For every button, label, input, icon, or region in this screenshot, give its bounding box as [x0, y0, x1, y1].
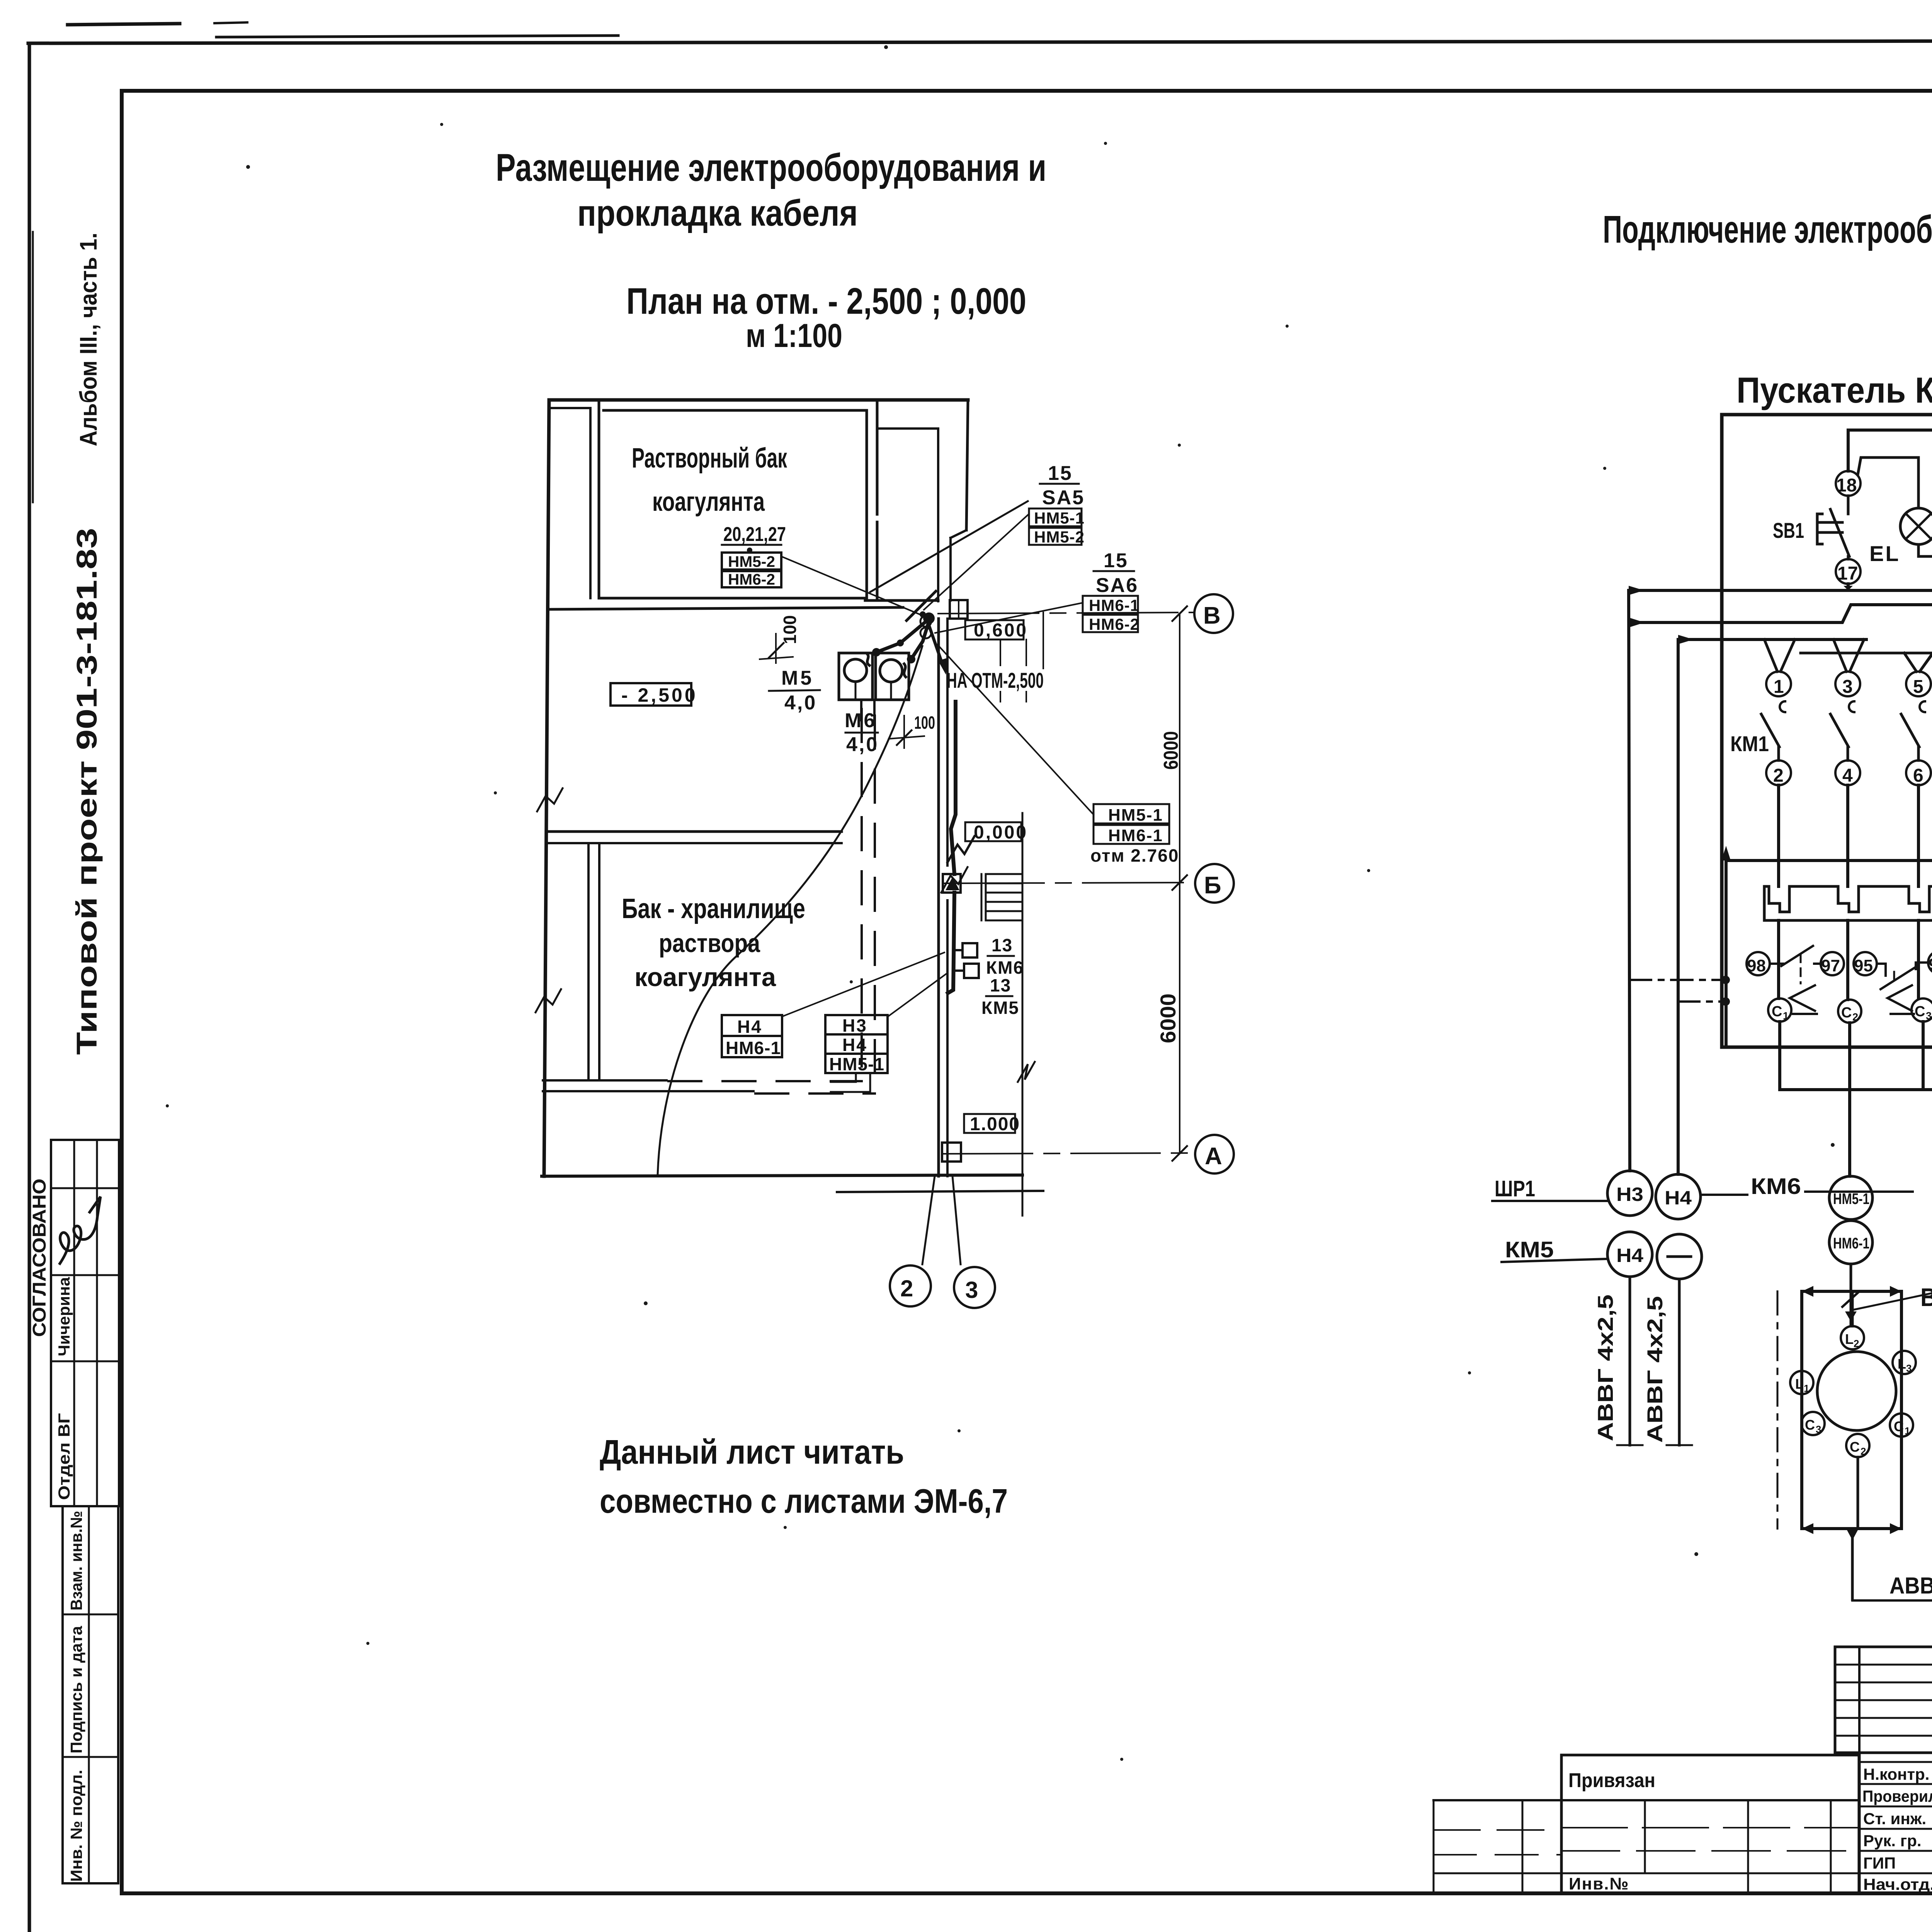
thermal trip hook 2 [1888, 985, 1914, 1014]
svg-text:Н4: Н4 [842, 1035, 867, 1055]
svg-text:98: 98 [1747, 956, 1766, 975]
label ШР1 [1492, 1176, 1607, 1201]
plan: room label Растворный бак [632, 443, 787, 474]
svg-text:0,000: 0,000 [974, 822, 1028, 843]
terminal 18 [1836, 471, 1861, 496]
label Выключатель SA5 (SA6) [1920, 1283, 1932, 1311]
svg-text:коагулянта: коагулянта [652, 486, 765, 517]
svg-text:Подключение электрооборудован: Подключение электрооборудования [1603, 208, 1932, 251]
svg-text:Привязан: Привязан [1568, 1769, 1655, 1792]
svg-text:М5: М5 [781, 667, 814, 689]
svg-text:1: 1 [1774, 677, 1784, 697]
svg-text:АВВГ 4х2,5: АВВГ 4х2,5 [1593, 1294, 1617, 1441]
terminal 17 [1836, 559, 1861, 584]
fuse circle blank [1657, 1234, 1702, 1279]
SA5 terminal C1 [1890, 1413, 1913, 1437]
fuse circle Н4 bottom [1607, 1232, 1652, 1277]
wires: phases down to thermal relay [1779, 785, 1918, 886]
plan: storage room bottom walls [543, 1080, 753, 1091]
plan: dim 100 left [760, 615, 800, 663]
thermal trip hook 1 [1790, 985, 1817, 1014]
svg-text:1: 1 [1783, 1010, 1789, 1022]
plan: left wall break mark [537, 788, 563, 811]
thermal relay heater block [1764, 886, 1932, 920]
svg-text:3: 3 [965, 1277, 978, 1303]
titleblock: names grid [1859, 1753, 1932, 1893]
switch SA5 frame wires [1802, 1286, 1901, 1534]
side text Чичерина [55, 1277, 73, 1356]
SA5 terminal L3 [1893, 1351, 1916, 1374]
svg-text:НМ6-2: НМ6-2 [1089, 615, 1139, 633]
svg-text:6000: 6000 [1156, 993, 1180, 1043]
svg-text:Взам. инв.№: Взам. инв.№ [67, 1511, 85, 1611]
titleblock: role labels [1862, 1765, 1932, 1893]
label АВВГ 4х2,5 vertical left [1593, 1294, 1617, 1441]
plan: 13/КМ6 box symbol [953, 943, 977, 957]
plan: pump junction dots and cable polylines [867, 612, 935, 677]
svg-text:НМ5-2: НМ5-2 [1034, 528, 1085, 546]
svg-text:2: 2 [1773, 765, 1784, 786]
svg-text:Н3: Н3 [842, 1015, 867, 1036]
plan: wall break on inner wall [1018, 1062, 1035, 1082]
svg-text:Нач.отд.: Нач.отд. [1863, 1875, 1932, 1893]
plan: partition wall middle [547, 832, 842, 843]
label КМ5 feeder [1502, 1237, 1607, 1262]
plan: cable riser thick line [948, 702, 956, 993]
wire: top latch line 18 to right [1848, 430, 1932, 815]
terminal C2 [1838, 1000, 1861, 1023]
svg-text:13: 13 [990, 975, 1011, 995]
svg-text:2: 2 [1852, 1011, 1858, 1023]
plan: dim text 6000 lower [1156, 993, 1180, 1043]
plan: wall below tank room [548, 607, 903, 609]
side text Взам. инв.№ [67, 1511, 85, 1611]
svg-text:НМ6-1: НМ6-1 [726, 1038, 781, 1058]
cable tails АВВГ below H circles [1617, 1277, 1692, 1445]
plan: room label коагулянта [652, 486, 765, 517]
title: Размещение электрооборудования и [496, 146, 1046, 189]
svg-text:Проверил: Проверил [1862, 1787, 1932, 1805]
wire: НМ6-1 down with cable mark [1842, 1264, 1859, 1326]
svg-text:95: 95 [1854, 956, 1873, 975]
note: Данный лист читать [600, 1433, 904, 1471]
wires: phases through heater to contacts row [1779, 920, 1918, 1000]
fuse circle Н3 [1607, 1171, 1652, 1216]
svg-text:НМ5-1: НМ5-1 [1034, 509, 1085, 527]
svg-text:Размещение электрооборудовани: Размещение электрооборудования и [496, 146, 1046, 189]
wire: bus2 to 13 [1630, 605, 1932, 672]
title right: Подключение электрооборудования [1603, 208, 1932, 251]
svg-text:НМ5-1: НМ5-1 [829, 1054, 884, 1074]
plan: riser break mark [947, 836, 975, 862]
plan: label M5/4,0 [769, 667, 820, 714]
plan: axis circle 2 [890, 1265, 931, 1306]
scan artifact dashes top-left [68, 22, 247, 25]
plan: stairs [981, 874, 1022, 920]
plan: Б axis line [944, 883, 1193, 883]
plan: label раствора [659, 929, 760, 958]
terminal 2 [1766, 760, 1791, 786]
plan: label M6/4,0 [845, 709, 879, 756]
plan: inner wall right of stairs [1022, 813, 1024, 1216]
plan: callout 20,21,27 with boxes [722, 523, 786, 588]
plan: pump pads M5 M6 [839, 653, 909, 725]
contact KM1 pole 1 [1761, 701, 1785, 760]
svg-text:3: 3 [1906, 1362, 1912, 1374]
svg-text:С: С [1841, 1005, 1852, 1021]
plan: label коагулянта2 [634, 963, 776, 992]
wire: bus1 17-96 [1629, 580, 1932, 590]
terminal 1 [1766, 672, 1791, 697]
plan: SA5 leader line [924, 514, 1029, 610]
plan: dimension line 6000x2 [1172, 606, 1187, 1161]
plan: left wall break mark 2 [536, 989, 561, 1012]
svg-text:4,0: 4,0 [784, 692, 817, 714]
plan: dashed cable tray horizontal [668, 1081, 875, 1094]
svg-text:Н.контр.: Н.контр. [1863, 1765, 1929, 1783]
label АВВГ 4х2,5 bottom [1889, 1573, 1932, 1599]
svg-text:Бак - хранилище: Бак - хранилище [622, 893, 805, 924]
thermal contact 95-96 [1877, 963, 1928, 989]
plan: SA6 leader line [935, 603, 1083, 633]
svg-text:18: 18 [1836, 475, 1857, 496]
label КМ6 [1702, 1174, 1913, 1199]
svg-text:НМ6-2: НМ6-2 [728, 571, 775, 588]
plan: axis circle 3 [954, 1267, 995, 1308]
svg-text:100: 100 [914, 713, 935, 733]
side text Подпись и дата [67, 1626, 85, 1753]
sheet outer border left [29, 43, 33, 1932]
plan: B axis line [938, 612, 1193, 614]
side text СОГЛАСОВАНО [29, 1179, 50, 1337]
plan: tank room walls (Растворный бак) [549, 400, 867, 600]
svg-text:Н3: Н3 [1616, 1184, 1643, 1205]
plan: stub elbows below stacks [831, 1073, 870, 1092]
subtitle: План на отм -2,500 ; 0,000 [626, 281, 1026, 322]
plan: right wall below B axis [939, 619, 947, 1176]
plan: label 13/КМ5 [981, 975, 1019, 1018]
svg-text:96: 96 [1929, 955, 1932, 974]
svg-text:С: С [1915, 1003, 1925, 1020]
svg-text:совместно с листами ЭМ-6,7: совместно с листами ЭМ-6,7 [600, 1482, 1008, 1520]
svg-text:НМ6-1: НМ6-1 [1089, 596, 1139, 614]
label SB1 [1773, 518, 1804, 543]
title: прокладка кабеля [577, 192, 858, 234]
terminal 97 [1821, 952, 1844, 975]
side stamp rotated title: Типовой проект 901-3-181.83 [71, 528, 103, 1055]
plan: elevation box 0,600 [965, 620, 1028, 641]
sheet outer border top [28, 36, 1932, 43]
svg-text:НМ6-1: НМ6-1 [1108, 826, 1163, 845]
svg-text:97: 97 [1821, 956, 1840, 975]
svg-text:раствора: раствора [659, 929, 760, 958]
svg-text:Инв. № подл.: Инв. № подл. [67, 1770, 85, 1882]
terminal 4 [1835, 760, 1860, 786]
plan: elevation box -2,500 [611, 683, 698, 706]
svg-text:Типовой проект 901-3-181.83: Типовой проект 901-3-181.83 [71, 528, 103, 1055]
svg-text:15: 15 [1104, 549, 1128, 572]
svg-text:1: 1 [1804, 1383, 1809, 1394]
plan: stair diagonal [870, 501, 1028, 592]
svg-text:L: L [1795, 1376, 1804, 1392]
svg-text:3: 3 [1816, 1423, 1821, 1435]
contact KM1 pole 3 [1901, 701, 1925, 760]
svg-text:15: 15 [1048, 462, 1073, 485]
junction blobs at wire corners [1629, 430, 1932, 861]
terminal C1 [1768, 998, 1791, 1022]
svg-text:Н4: Н4 [1616, 1245, 1643, 1266]
svg-text:Пускатель КМ5 (КМ6): Пускатель КМ5 (КМ6) [1736, 370, 1932, 410]
plan: label Бак-хранилище [622, 893, 805, 924]
plan: Н3/Н4/НМ5-1 stack [825, 1015, 888, 1074]
svg-text:2: 2 [900, 1276, 913, 1301]
plan: box at А axis [942, 1143, 961, 1162]
plan: building top wall [549, 398, 968, 402]
terminal C3 [1912, 998, 1932, 1022]
plan: А axis line [944, 1153, 1193, 1154]
svg-text:План на отм. - 2,500 ; 0,00: План на отм. - 2,500 ; 0,000 [626, 281, 1026, 322]
dash-dot links to enclosure left [1630, 976, 1730, 1006]
plan: А axis circle [1195, 1135, 1234, 1173]
svg-text:- 2,500: - 2,500 [621, 684, 698, 706]
switch SA5 dash-dot boundary [1777, 1291, 1779, 1529]
svg-text:Отдел ВГ: Отдел ВГ [55, 1413, 73, 1500]
plan: building left wall [544, 400, 549, 1176]
plan: 13/КМ5 box symbol [953, 964, 979, 978]
plan: wall break mark right [941, 867, 968, 893]
plan: leaders to Н4/Н3 stacks [783, 952, 947, 1016]
plan: dashed cable tray vertical [862, 709, 875, 1094]
side table block2 grid [63, 1506, 118, 1883]
svg-text:3: 3 [1842, 677, 1853, 697]
label KM1 left [1730, 731, 1769, 756]
plan: dim text 6000 upper [1160, 731, 1182, 770]
plan: elevation box 1.000 [964, 1114, 1020, 1134]
plan: Н4/НМ6-1 stack [722, 1015, 782, 1058]
svg-text:Растворный бак: Растворный бак [632, 443, 787, 474]
wire: bottom cable run [1852, 1579, 1932, 1600]
terminal 3 [1835, 672, 1860, 697]
plan: leader to HM5-1 stack lower [937, 645, 1094, 815]
plan: long S-curve cable [658, 646, 922, 1175]
label АВВГ 4х2,5 vertical right [1643, 1296, 1667, 1443]
terminal 98 [1747, 952, 1770, 975]
plan: 20,21,27 leader [781, 556, 922, 615]
side stamp rotated title: Альбом III, часть 1 [75, 233, 102, 446]
svg-text:L: L [1898, 1356, 1906, 1372]
wire: B return down and left [1726, 785, 1932, 1047]
svg-text:Н4: Н4 [737, 1017, 762, 1037]
wires: C row join bar [1780, 1022, 1932, 1176]
svg-text:SB1: SB1 [1773, 518, 1804, 543]
svg-text:КМ6: КМ6 [986, 957, 1024, 978]
label EL [1869, 541, 1900, 566]
side text Инв. № подл. [67, 1770, 85, 1882]
svg-text:1.000: 1.000 [970, 1114, 1020, 1134]
svg-text:коагулянта: коагулянта [634, 963, 776, 992]
svg-text:КМ5: КМ5 [981, 998, 1019, 1018]
terminal 95b [1854, 952, 1877, 975]
svg-text:17: 17 [1837, 563, 1858, 584]
wire: SA5 C2 down [1857, 1457, 1859, 1529]
thermal contact 98-97 [1770, 946, 1821, 983]
subtitle: м 1:100 [746, 317, 842, 354]
SA5 terminal C2 [1846, 1434, 1869, 1457]
svg-text:4: 4 [1842, 765, 1853, 786]
side text Отдел ВГ [55, 1413, 73, 1500]
lamp EL wiring [1858, 439, 1932, 672]
titleblock: upper small grid [1835, 1647, 1932, 1753]
wire: 17 to bus1 [1847, 584, 1850, 590]
SA5 terminal L2 [1841, 1291, 1864, 1349]
svg-text:м 1:100: м 1:100 [746, 317, 842, 354]
plan: building bottom wall [542, 1175, 1043, 1192]
svg-text:АВВГ 4х2,5: АВВГ 4х2,5 [1643, 1296, 1667, 1443]
svg-text:АВВГ 4х2,5: АВВГ 4х2,5 [1889, 1573, 1932, 1599]
svg-text:КМ6: КМ6 [1751, 1174, 1801, 1199]
svg-text:6000: 6000 [1160, 731, 1182, 770]
svg-text:Альбом III., часть 1.: Альбом III., часть 1. [75, 233, 102, 446]
svg-text:Выключатель SA5 (SA6): Выключатель SA5 (SA6) [1920, 1283, 1932, 1311]
plan: label 13/КМ6 [986, 935, 1024, 978]
plan: wall box at B axis [950, 600, 968, 619]
note: совместно с листами ЭМ-6,7 [600, 1482, 1008, 1520]
svg-text:Чичерина: Чичерина [55, 1277, 73, 1356]
svg-text:ШР1: ШР1 [1495, 1176, 1535, 1201]
title: Пускатель КМ5 (КМ6) [1736, 370, 1932, 410]
svg-text:НМ6-1: НМ6-1 [1833, 1235, 1869, 1252]
svg-text:С: С [1805, 1417, 1815, 1433]
plan: arrow НА ОТМ-2,500 [929, 625, 1044, 692]
svg-text:2: 2 [1861, 1446, 1866, 1457]
plan: cable entry hatch cluster [906, 591, 936, 638]
plan: top right wall stub [865, 400, 968, 601]
starter circle НМ5-1 [1829, 1176, 1872, 1219]
SA5 terminal C3 [1801, 1412, 1825, 1435]
terminal 96b [1928, 951, 1932, 974]
svg-text:Ст. инж.: Ст. инж. [1863, 1810, 1926, 1828]
plan: risers to axis circles 2 and 3 [922, 1176, 961, 1264]
svg-text:НМ5-2: НМ5-2 [728, 553, 775, 570]
svg-text:6: 6 [1913, 765, 1923, 786]
starter enclosure box [1722, 415, 1932, 1047]
svg-text:НМ5-1: НМ5-1 [1833, 1190, 1869, 1207]
plan: storage room inner wall [588, 843, 599, 1080]
fuse circle Н4 top [1656, 1174, 1701, 1219]
svg-text:прокладка кабеля: прокладка кабеля [577, 192, 858, 234]
lamp EL [1900, 508, 1932, 544]
plan: box at Б axis [943, 874, 961, 893]
svg-text:SA6: SA6 [1096, 574, 1138, 597]
svg-text:100: 100 [780, 615, 800, 644]
svg-text:EL: EL [1869, 541, 1900, 566]
svg-text:КМ5: КМ5 [1505, 1237, 1554, 1262]
svg-text:Подпись и дата: Подпись и дата [67, 1626, 85, 1753]
svg-text:А: А [1205, 1143, 1222, 1170]
contact KM1 pole 2 [1830, 701, 1854, 760]
feeder vertical from ШР1 [1629, 590, 1630, 1171]
feeder vertical from КМ5 [1677, 639, 1680, 1174]
plan: dim 100 right [889, 713, 935, 748]
svg-text:2: 2 [1854, 1338, 1859, 1349]
svg-text:отм 2.760: отм 2.760 [1090, 845, 1179, 866]
svg-text:1: 1 [1905, 1425, 1910, 1437]
svg-text:С: С [1850, 1439, 1860, 1455]
leader АВВГ 4х2,5 top [1853, 1260, 1932, 1310]
svg-text:НМ5-1: НМ5-1 [1108, 806, 1163, 825]
svg-text:5: 5 [1913, 677, 1923, 697]
svg-text:L: L [1845, 1331, 1854, 1347]
titleblock: annex rows left of privyazan [1434, 1800, 1561, 1893]
terminal 6 [1906, 760, 1931, 786]
plan: Б axis circle [1195, 864, 1234, 903]
svg-text:НА ОТМ-2,500: НА ОТМ-2,500 [947, 668, 1044, 692]
svg-text:Рук. гр.: Рук. гр. [1863, 1832, 1922, 1850]
plan: SA5 callout stack [1029, 462, 1085, 546]
terminal 5 [1906, 672, 1931, 697]
plan: SA6 callout stack [1083, 549, 1139, 633]
pushbutton SB1 [1817, 496, 1849, 559]
svg-text:Б: Б [1204, 872, 1221, 899]
svg-text:SA5: SA5 [1042, 486, 1085, 509]
svg-text:ГИП: ГИП [1863, 1854, 1896, 1872]
switch SA5 rotor circle [1817, 1352, 1896, 1430]
plan: B axis circle [1194, 594, 1233, 633]
SA5 terminal L1 [1790, 1371, 1813, 1394]
svg-text:С: С [1894, 1418, 1904, 1434]
wire: bus3 with drops to 1 and 3 [1678, 639, 1866, 672]
plan: opening lines below 0,600 [1000, 612, 1043, 702]
svg-text:С: С [1772, 1003, 1782, 1020]
wire: SA5 output down [1847, 1529, 1858, 1600]
svg-text:Данный лист читать: Данный лист читать [600, 1433, 904, 1471]
wire: bus4 with drops to 5 and A [1801, 653, 1932, 672]
svg-text:КМ1: КМ1 [1730, 731, 1769, 756]
svg-text:Инв.№: Инв.№ [1569, 1874, 1629, 1893]
side signature squiggle [60, 1197, 100, 1264]
plan: HM5-1/HM6-1 отм 2.760 stack [1090, 804, 1179, 866]
plan: elevation box 0,000 [965, 822, 1028, 843]
svg-text:4,0: 4,0 [846, 733, 879, 756]
svg-text:3: 3 [1926, 1010, 1932, 1022]
svg-text:Н4: Н4 [1665, 1187, 1692, 1209]
svg-text:13: 13 [992, 935, 1013, 955]
svg-text:СОГЛАСОВАНО: СОГЛАСОВАНО [29, 1179, 50, 1337]
svg-text:М6: М6 [845, 709, 877, 732]
titleblock: privyazan box [1561, 1755, 1859, 1893]
svg-text:20,21,27: 20,21,27 [723, 523, 786, 546]
svg-text:В: В [1203, 602, 1221, 629]
side table block1 (Согласовано) grid [51, 1140, 119, 1506]
wire: 96 diagonal to 5 [1920, 582, 1932, 672]
starter circle НМ6-1 [1829, 1221, 1872, 1264]
